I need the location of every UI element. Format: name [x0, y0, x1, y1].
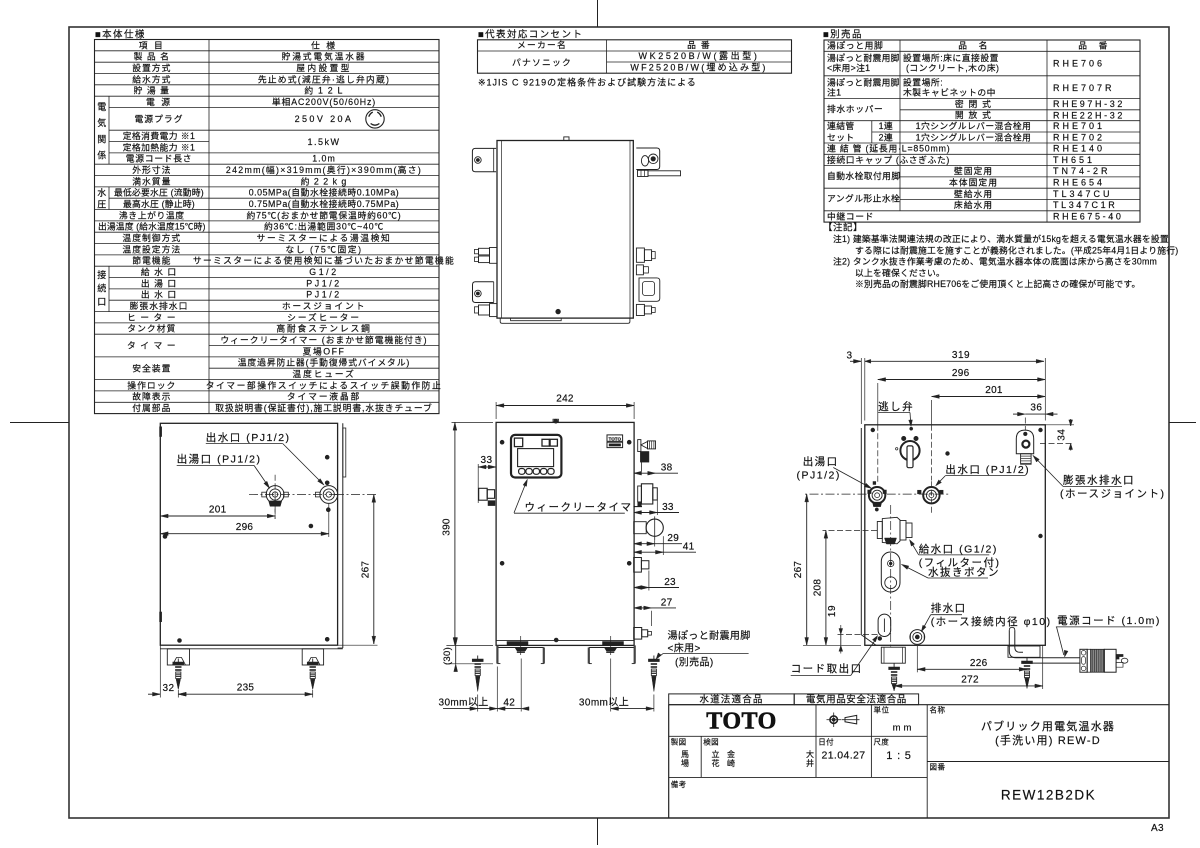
svg-text:節電機能: 節電機能 [132, 255, 171, 266]
svg-text:満水質量: 満水質量 [132, 175, 171, 186]
svg-text:井: 井 [806, 758, 814, 768]
svg-text:花: 花 [712, 758, 720, 768]
svg-text:226: 226 [970, 658, 988, 669]
svg-text:壁固定用: 壁固定用 [954, 165, 993, 176]
front view dim 23 [648, 571, 650, 591]
svg-text:23: 23 [664, 577, 676, 588]
rear port 出水口 [923, 487, 939, 503]
svg-text:2連: 2連 [879, 132, 894, 143]
front floor anchor right [653, 656, 655, 660]
front view top nub [553, 419, 559, 422]
rear centerlines [887, 493, 950, 495]
svg-text:場: 場 [681, 758, 689, 768]
rear 排水口 fitting [910, 630, 925, 645]
svg-text:TOTO: TOTO [609, 436, 622, 441]
svg-text:RHE97H-32: RHE97H-32 [1053, 99, 1125, 109]
svg-text:製 品 名: 製 品 名 [134, 51, 170, 62]
rear コード取出口 [878, 614, 891, 636]
perspective view main body [497, 141, 633, 319]
svg-text:出湯口: 出湯口 [803, 455, 839, 468]
svg-text:付属部品: 付属部品 [132, 402, 171, 413]
svg-text:パナソニック: パナソニック [512, 57, 572, 67]
perspective left top bracket [472, 148, 496, 171]
side view hem marks [160, 427, 162, 437]
rear power cord hook [1009, 630, 1080, 658]
rear dim 319 [1044, 358, 1046, 421]
svg-text:32: 32 [162, 683, 174, 694]
svg-text:本体固定用: 本体固定用 [949, 177, 998, 188]
front view foot pads [507, 642, 528, 646]
svg-text:日付: 日付 [818, 737, 834, 747]
svg-text:<床用>: <床用> [668, 642, 701, 655]
svg-text:仕 様: 仕 様 [311, 39, 337, 50]
svg-text:RHE654: RHE654 [1053, 178, 1105, 188]
svg-text:RHE675-40: RHE675-40 [1053, 211, 1123, 221]
svg-text:水道法適合品: 水道法適合品 [699, 694, 763, 706]
svg-text:安全装置: 安全装置 [132, 362, 171, 373]
svg-text:故障表示: 故障表示 [132, 391, 171, 402]
svg-text:電源コード (1.0m): 電源コード (1.0m) [1057, 614, 1161, 627]
side view bottom dims 32 235 [159, 645, 161, 697]
perspective left bottom bracket [473, 282, 494, 303]
svg-text:給水口 (G1/2): 給水口 (G1/2) [919, 542, 998, 555]
svg-text:33: 33 [480, 455, 492, 466]
svg-text:気: 気 [97, 117, 106, 128]
perspective relief valve drain rod [638, 170, 649, 176]
front view right fitting [638, 486, 642, 502]
svg-text:膨張水排水口: 膨張水排水口 [1063, 474, 1135, 487]
svg-text:電源コード長さ: 電源コード長さ [126, 154, 192, 164]
svg-text:湯ぽっと耐震用脚: 湯ぽっと耐震用脚 [668, 629, 751, 642]
perspective bottom skirt [500, 318, 630, 323]
side view dim 267 [335, 494, 378, 496]
svg-text:最高水圧 (静止時): 最高水圧 (静止時) [123, 198, 195, 209]
options table verticals [1046, 40, 1048, 222]
side view front tab [343, 428, 346, 477]
svg-text:続: 続 [97, 283, 106, 294]
svg-text:A3: A3 [1151, 823, 1164, 834]
svg-text:34: 34 [1057, 429, 1068, 441]
svg-text:係: 係 [97, 151, 106, 161]
svg-text:電気用品安全法適合品: 電気用品安全法適合品 [806, 694, 907, 706]
svg-text:関: 関 [97, 134, 106, 144]
svg-text:(別売品): (別売品) [675, 656, 714, 669]
svg-text:出水口 (PJ1/2): 出水口 (PJ1/2) [206, 431, 291, 444]
svg-text:外形寸法: 外形寸法 [132, 164, 171, 175]
title block outer [668, 705, 670, 818]
svg-text:3: 3 [846, 351, 852, 362]
svg-text:温度過昇防止器(手動復帰式バイメタル): 温度過昇防止器(手動復帰式バイメタル) [238, 357, 411, 368]
front view dim (30) [446, 663, 493, 665]
svg-text:給 水 口: 給 水 口 [141, 266, 177, 277]
svg-text:操作ロック: 操作ロック [127, 379, 176, 390]
svg-text:屋内設置型: 屋内設置型 [296, 62, 352, 73]
svg-text:パブリック用電気温水器: パブリック用電気温水器 [981, 719, 1115, 733]
stamp box 電気用品安全法適合品 [794, 694, 918, 705]
svg-text:単位: 単位 [874, 705, 890, 715]
front view dim 27 [651, 611, 653, 626]
svg-text:検図: 検図 [703, 737, 719, 747]
svg-text:1 : 5: 1 : 5 [886, 750, 911, 762]
svg-text:連結管: 連結管 [827, 120, 855, 131]
svg-text:RHE706: RHE706 [1053, 58, 1105, 68]
front view bottom dims [477, 695, 479, 712]
perspective left middle fittings [490, 248, 498, 264]
front view timer panel [511, 435, 561, 478]
perspective right side fitting small [636, 265, 643, 275]
rear port 膨張水排水口 [1016, 430, 1033, 454]
svg-text:※別売品の耐震脚RHE706をご使用頂くと上記高さの確保が可: ※別売品の耐震脚RHE706をご使用頂くと上記高さの確保が可能です。 [855, 278, 1141, 289]
perspective right side block [639, 278, 660, 301]
svg-text:■代表対応コンセント: ■代表対応コンセント [478, 29, 583, 41]
side view anchor bolt left [177, 659, 179, 663]
svg-text:圧: 圧 [97, 199, 106, 209]
title block rows left [669, 735, 928, 737]
svg-text:(PJ1/2): (PJ1/2) [797, 469, 841, 481]
svg-text:(ホースジョイント): (ホースジョイント) [1060, 488, 1165, 500]
svg-text:定格消費電力 ※1: 定格消費電力 ※1 [123, 130, 196, 141]
svg-text:自動水栓取付用脚: 自動水栓取付用脚 [827, 170, 901, 181]
rear dim 267 [803, 493, 867, 495]
svg-text:242mm(幅)×319mm(奥行)×390mm(高さ): 242mm(幅)×319mm(奥行)×390mm(高さ) [226, 164, 422, 175]
svg-text:RHE701: RHE701 [1053, 121, 1105, 131]
svg-text:約36℃:出湯範囲30℃~40℃: 約36℃:出湯範囲30℃~40℃ [264, 221, 384, 232]
rear port 給水口 assembly [877, 522, 882, 539]
stamp box 水道法適合品 [669, 694, 795, 705]
rear dim 201 [931, 400, 933, 425]
svg-text:タイマー部操作スイッチによるスイッチ誤動作防止: タイマー部操作スイッチによるスイッチ誤動作防止 [206, 379, 443, 390]
svg-text:242: 242 [556, 394, 574, 405]
spec table row lines [95, 50, 440, 52]
side view dim 201 [274, 498, 276, 519]
front view top right fitting 膨張水排水口 [638, 440, 641, 452]
perspective top nub [564, 137, 569, 141]
svg-text:出湯温度 (給水温度15℃時): 出湯温度 (給水温度15℃時) [98, 221, 206, 232]
svg-text:1.0m: 1.0m [312, 154, 336, 164]
perspective right top bracket with relief valve [636, 148, 659, 170]
svg-text:貯湯式電気温水器: 貯湯式電気温水器 [282, 51, 367, 62]
front view middle right fitting [634, 558, 642, 573]
svg-text:中継コード: 中継コード [827, 210, 874, 221]
rear port 出湯口 [869, 487, 885, 503]
svg-text:設置方式: 設置方式 [132, 62, 171, 73]
perspective bottom recess panel [511, 318, 562, 321]
spec table column divider [208, 40, 210, 414]
svg-text:WK2520B/W(露出型): WK2520B/W(露出型) [639, 50, 760, 61]
front view body [496, 422, 634, 645]
svg-text:湯ぽっと用脚: 湯ぽっと用脚 [827, 40, 883, 50]
svg-text:TL347C1R: TL347C1R [1053, 200, 1117, 210]
svg-text:<床用>注1: <床用>注1 [827, 62, 870, 73]
title block verticals [926, 705, 928, 818]
svg-text:タ イ マ ー: タ イ マ ー [127, 341, 177, 351]
svg-text:メーカー名: メーカー名 [517, 39, 567, 50]
svg-text:サーミスターによる湯温検知: サーミスターによる湯温検知 [257, 232, 392, 243]
svg-text:ウィークリータイマー: ウィークリータイマー [525, 502, 645, 514]
svg-text:品 番: 品 番 [1078, 39, 1109, 50]
svg-text:0.75MPa(自動水栓接続時0.75MPa): 0.75MPa(自動水栓接続時0.75MPa) [249, 198, 400, 209]
svg-text:尺度: 尺度 [874, 737, 890, 747]
label weekly timer [514, 482, 527, 513]
svg-text:図番: 図番 [930, 762, 946, 772]
svg-text:給水方式: 給水方式 [132, 73, 171, 84]
svg-text:密 閉 式: 密 閉 式 [955, 98, 992, 109]
svg-text:RHE140: RHE140 [1053, 144, 1105, 154]
svg-text:床給水用: 床給水用 [954, 199, 993, 210]
front view bottom right fitting [634, 628, 642, 640]
side view port 出湯口 fitting [266, 486, 284, 504]
rear dim 3 [860, 358, 862, 424]
svg-text:※1JIS C 9219の定格条件および試験方法による: ※1JIS C 9219の定格条件および試験方法による [478, 77, 697, 88]
svg-text:貯 湯 量: 貯 湯 量 [134, 86, 170, 96]
svg-text:注1: 注1 [827, 86, 841, 97]
options table horizontals [824, 50, 1140, 52]
svg-text:名称: 名称 [930, 705, 946, 715]
front view dim 242 [495, 402, 497, 419]
svg-text:品 番: 品 番 [687, 39, 711, 50]
perspective bottom center screw [556, 309, 561, 314]
svg-text:■本体仕様: ■本体仕様 [95, 29, 146, 41]
front view bottom plate line [496, 640, 634, 642]
front seismic bracket right [589, 647, 635, 649]
svg-text:■別売品: ■別売品 [823, 29, 863, 41]
spec table group column lines [108, 96, 110, 164]
svg-text:1.5kW: 1.5kW [307, 137, 340, 147]
svg-text:TN74-2R: TN74-2R [1053, 166, 1111, 176]
svg-text:29: 29 [667, 533, 679, 544]
front view dim 41 [662, 536, 664, 555]
svg-text:250V 20A: 250V 20A [295, 114, 354, 124]
svg-text:最低必要水圧 (流動時): 最低必要水圧 (流動時) [114, 187, 204, 198]
perspective right side fitting upper [636, 248, 644, 262]
title block row right [927, 761, 1169, 763]
side view dim 296 [328, 504, 330, 538]
svg-text:立: 立 [712, 749, 720, 759]
front unit bolt centerlines [520, 636, 522, 655]
svg-text:シーズヒーター: シーズヒーター [287, 311, 361, 322]
front TOTO logo plate [607, 435, 623, 441]
svg-text:夏場OFF: 夏場OFF [303, 345, 346, 356]
svg-text:(手洗い用) REW-D: (手洗い用) REW-D [995, 733, 1101, 747]
svg-text:ヒ ー タ ー: ヒ ー タ ー [127, 312, 177, 322]
rear relief valve [900, 441, 919, 460]
svg-text:サーミスターによる使用検知に基づいたおまかせ節電機能: サーミスターによる使用検知に基づいたおまかせ節電機能 [193, 255, 455, 266]
svg-text:ホースジョイント: ホースジョイント [282, 301, 366, 311]
rear anchor left [893, 664, 895, 668]
frame center tick top [597, 0, 599, 27]
perspective right bottom fitting [636, 304, 644, 315]
rear plug [1080, 649, 1087, 672]
svg-text:【注記】: 【注記】 [823, 222, 863, 234]
rear plug prongs [1116, 655, 1123, 660]
svg-text:約 1 2 L: 約 1 2 L [304, 85, 343, 96]
svg-text:約 2 2 k g: 約 2 2 k g [301, 175, 348, 186]
svg-text:逃し弁: 逃し弁 [878, 400, 914, 413]
svg-text:膨張水排水口: 膨張水排水口 [130, 300, 189, 311]
svg-text:RHE702: RHE702 [1053, 133, 1105, 143]
svg-text:開 放 式: 開 放 式 [955, 109, 992, 120]
svg-text:約75℃(おまかせ節電保温時約60℃): 約75℃(おまかせ節電保温時約60℃) [247, 209, 402, 220]
svg-text:注1) 建築基準法関連法規の改正により、満水質量が15kgを: 注1) 建築基準法関連法規の改正により、満水質量が15kgを超える電気温水器を設… [833, 233, 1169, 244]
svg-text:温度制御方式: 温度制御方式 [122, 232, 181, 243]
svg-text:(ホース接続内径 φ10): (ホース接続内径 φ10) [931, 615, 1052, 628]
svg-text:38: 38 [661, 463, 673, 474]
svg-text:PJ1/2: PJ1/2 [306, 290, 342, 300]
svg-text:水抜きボタン: 水抜きボタン [928, 565, 1000, 578]
svg-text:42: 42 [503, 698, 515, 709]
svg-text:296: 296 [952, 368, 970, 379]
options table outer [824, 40, 1140, 222]
svg-text:排水口: 排水口 [931, 602, 967, 615]
front view dim 390 [452, 421, 494, 423]
projection symbol [830, 716, 838, 724]
svg-text:PJ1/2: PJ1/2 [306, 278, 342, 288]
svg-text:設置場所:: 設置場所: [903, 76, 943, 87]
side view bottom plate [160, 648, 342, 650]
svg-text:0.05MPa(自動水栓接続時0.10MPa): 0.05MPa(自動水栓接続時0.10MPa) [249, 187, 400, 198]
perspective left bottom fitting [490, 304, 498, 317]
svg-text:TH651: TH651 [1053, 155, 1095, 165]
rear dim 36 [1024, 418, 1026, 431]
svg-text:1連: 1連 [879, 120, 894, 131]
svg-text:注2) タンク水抜き作業考慮のため、電気温水器本体の底面は床: 注2) タンク水抜き作業考慮のため、電気温水器本体の底面は床から高さを30mm [833, 256, 1157, 267]
svg-text:先止め式(減圧弁·逃し弁内蔵): 先止め式(減圧弁·逃し弁内蔵) [258, 73, 390, 84]
svg-text:41: 41 [683, 542, 695, 553]
front floor anchor left [477, 656, 479, 660]
rear view screws [871, 428, 875, 432]
side view centerline vertical [274, 475, 276, 519]
svg-text:出水口 (PJ1/2): 出水口 (PJ1/2) [945, 463, 1030, 476]
svg-text:267: 267 [361, 561, 372, 579]
side view centerline horizontal [249, 494, 338, 496]
svg-text:口: 口 [97, 297, 106, 307]
front view inlet circle [634, 522, 647, 534]
rear dim 208 [823, 529, 878, 531]
svg-text:項 目: 項 目 [139, 40, 165, 50]
svg-text:排水ホッパー: 排水ホッパー [827, 103, 883, 114]
svg-text:温度設定方法: 温度設定方法 [122, 243, 181, 254]
svg-text:201: 201 [985, 385, 1003, 396]
rear dim 272 [893, 689, 895, 691]
side view body [160, 423, 337, 645]
rear dim 296 [877, 383, 879, 425]
svg-text:1穴シングルレバー混合栓用: 1穴シングルレバー混合栓用 [916, 132, 1032, 143]
svg-text:取扱説明書(保証書付),施工説明書,水抜きチューブ: 取扱説明書(保証書付),施工説明書,水抜きチューブ [215, 402, 432, 413]
svg-text:RHE707R: RHE707R [1053, 83, 1115, 93]
svg-text:G1/2: G1/2 [309, 267, 338, 277]
rear seismic bracket right foot [1008, 646, 1040, 657]
svg-text:定格加熱能力 ※1: 定格加熱能力 ※1 [123, 141, 196, 152]
svg-text:267: 267 [793, 561, 804, 579]
svg-text:33: 33 [662, 502, 674, 513]
svg-text:ウィークリータイマー (おまかせ節電機能付き): ウィークリータイマー (おまかせ節電機能付き) [220, 334, 427, 345]
side view port 出水口 fitting [320, 486, 338, 504]
svg-text:出湯口 (PJ1/2): 出湯口 (PJ1/2) [177, 453, 262, 466]
rear dim 226 [916, 646, 918, 672]
svg-text:馬: 馬 [681, 750, 689, 759]
side view front panel strip [342, 423, 344, 648]
side view feet [167, 649, 189, 665]
svg-text:木製キャビネットの中: 木製キャビネットの中 [903, 86, 996, 97]
svg-text:電: 電 [97, 102, 106, 112]
svg-text:温度ヒューズ: 温度ヒューズ [292, 368, 355, 379]
svg-text:接: 接 [97, 269, 106, 280]
svg-text:(30): (30) [442, 647, 453, 665]
rear 水抜きボタン [881, 552, 900, 592]
svg-text:208: 208 [812, 579, 823, 597]
front unit bolt washers [515, 648, 527, 651]
svg-text:(コンクリート,木の床): (コンクリート,木の床) [906, 62, 999, 73]
svg-text:235: 235 [237, 683, 255, 694]
svg-text:水: 水 [97, 187, 106, 198]
rear dim 19 [837, 634, 878, 636]
svg-text:RHE22H-32: RHE22H-32 [1053, 110, 1125, 120]
rear view body [865, 425, 1046, 646]
front seismic bracket left [498, 647, 544, 649]
rear view left mounting strip [860, 428, 862, 635]
front view dim 33 left [477, 464, 479, 503]
svg-text:21.04.27: 21.04.27 [821, 750, 865, 762]
svg-text:272: 272 [961, 674, 979, 685]
power plug icon [366, 110, 384, 128]
front view dim 29 [634, 543, 682, 545]
svg-text:なし (75℃固定): なし (75℃固定) [285, 243, 362, 254]
svg-text:湯ぽっと耐震用脚: 湯ぽっと耐震用脚 [827, 52, 900, 63]
svg-text:する際には耐震施工を施すことが義務化されました。(平成25年: する際には耐震施工を施すことが義務化されました。(平成25年4月1日より施行) [855, 244, 1178, 255]
svg-text:湯ぽっと耐震用脚: 湯ぽっと耐震用脚 [827, 76, 900, 87]
svg-text:接続口キャップ (ふさぎふた): 接続口キャップ (ふさぎふた) [827, 154, 950, 165]
svg-text:タイマー液晶部: タイマー液晶部 [287, 391, 361, 402]
svg-text:電 源: 電 源 [146, 97, 172, 107]
svg-text:201: 201 [209, 505, 227, 516]
svg-text:セット: セット [827, 133, 855, 143]
svg-text:高耐食ステンレス鋼: 高耐食ステンレス鋼 [276, 323, 371, 334]
svg-text:電源プラグ: 電源プラグ [135, 113, 184, 124]
svg-text:1穴シングルレバー混合栓用: 1穴シングルレバー混合栓用 [916, 120, 1032, 131]
spec table outer border [95, 40, 440, 414]
rear seismic bracket left foot [881, 647, 905, 663]
svg-text:TL347CU: TL347CU [1053, 189, 1113, 199]
svg-text:崎: 崎 [727, 758, 735, 768]
svg-text:mm: mm [893, 723, 915, 734]
svg-text:REW12B2DK: REW12B2DK [1001, 788, 1096, 803]
svg-text:金: 金 [727, 749, 735, 759]
svg-text:沸き上がり温度: 沸き上がり温度 [119, 209, 185, 220]
svg-text:設置場所:床に直接設置: 設置場所:床に直接設置 [903, 52, 999, 63]
rear anchor right [1026, 658, 1028, 662]
front view screws [500, 440, 504, 444]
svg-text:30mm以上: 30mm以上 [579, 697, 629, 709]
svg-text:TOTO: TOTO [706, 709, 776, 735]
side view anchor bolt right [312, 659, 314, 663]
outlet table grid [478, 40, 792, 73]
svg-text:以上を確保ください。: 以上を確保ください。 [855, 267, 945, 278]
svg-text:備考: 備考 [671, 779, 687, 789]
svg-text:30mm以上: 30mm以上 [439, 697, 489, 709]
frame center tick left [10, 422, 69, 424]
svg-text:296: 296 [236, 522, 254, 533]
svg-text:大: 大 [806, 749, 814, 759]
svg-text:19: 19 [827, 605, 838, 617]
svg-text:品 名: 品 名 [958, 39, 989, 50]
svg-text:連 結 管 (延長用·L=850mm): 連 結 管 (延長用·L=850mm) [827, 143, 950, 154]
svg-text:319: 319 [952, 350, 970, 361]
svg-text:390: 390 [442, 518, 453, 536]
front view dim 33 right [656, 500, 658, 515]
svg-text:製図: 製図 [671, 737, 687, 747]
svg-text:壁給水用: 壁給水用 [954, 188, 993, 199]
svg-text:出 湯 口: 出 湯 口 [141, 277, 177, 288]
